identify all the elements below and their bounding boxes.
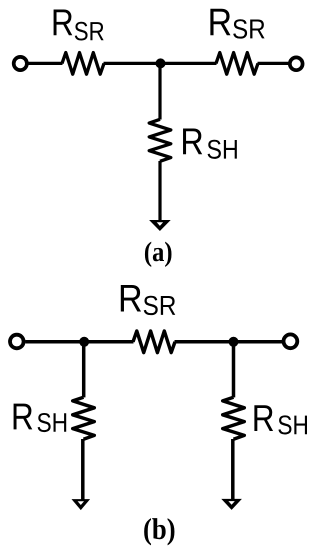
wire (a) node down to R_SH <box>158 63 161 119</box>
wire (b) right node down to R_SH <box>232 342 236 398</box>
resistor R_SR (b) middle <box>133 331 175 353</box>
caption (a) <box>145 242 172 267</box>
wire (a) middle segment <box>104 62 217 65</box>
resistor R_SR (a) right <box>216 53 258 75</box>
wire (a) R_SR to right terminal <box>258 62 289 65</box>
node junction dot (a) <box>156 58 166 68</box>
label R_SH (b) left <box>14 404 67 432</box>
terminal port circle (b) left <box>10 335 24 349</box>
label R_SH (b) right <box>254 405 307 434</box>
ground arrow (b) left <box>72 499 91 510</box>
resistor R_SH (b) right <box>223 397 245 439</box>
terminal port circle (a) left <box>14 57 27 70</box>
label R_SR (b) <box>121 285 175 315</box>
wire (b) left node down to R_SH <box>82 342 86 398</box>
wire (b) left terminal to node <box>25 340 133 344</box>
node junction dot (b) right <box>229 337 239 347</box>
terminal port circle (a) right <box>290 57 303 70</box>
wire (b) right R_SH down to ground arrow <box>231 439 235 499</box>
wire (a) left terminal to R_SR <box>29 62 63 65</box>
ground arrow (a) <box>149 220 171 231</box>
label R_SR (a) right <box>210 9 264 39</box>
wire (a) R_SH down to ground arrow <box>158 161 161 221</box>
ground arrow (b) right <box>221 499 242 510</box>
node junction dot (b) left <box>79 337 89 347</box>
resistor R_SR (a) left <box>62 53 104 75</box>
resistor R_SH (b) left <box>73 397 95 439</box>
wire (b) left R_SH down to ground arrow <box>81 439 85 500</box>
caption (b) <box>144 518 174 545</box>
terminal port circle (b) right <box>284 334 298 348</box>
label R_SR (a) left <box>54 10 104 41</box>
label R_SH (a) <box>183 129 237 159</box>
resistor R_SH (a) vertical <box>149 119 171 161</box>
wire (b) node to right terminal <box>175 340 283 344</box>
